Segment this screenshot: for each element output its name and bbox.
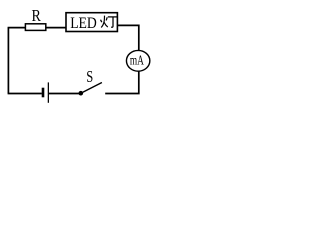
label CJK lamp glyph: fire radical right leg bbox=[104, 22, 108, 27]
LED lamp box bbox=[66, 13, 117, 32]
wire resistor to LED box bbox=[46, 27, 66, 29]
resistor R bbox=[25, 24, 45, 31]
svg-text:S: S bbox=[86, 67, 93, 86]
battery negative plate (short thick) bbox=[42, 88, 45, 98]
switch pivot dot bbox=[79, 91, 84, 96]
wire battery to bottom-left bbox=[8, 93, 42, 95]
label CJK lamp glyph: fire radical main stroke bbox=[101, 16, 104, 28]
svg-text:mA: mA bbox=[130, 53, 144, 68]
svg-text:LED: LED bbox=[70, 15, 97, 32]
label CJK lamp glyph: fire radical right dot bbox=[106, 17, 107, 20]
label CJK lamp glyph: ding vertical hook bbox=[111, 17, 113, 27]
label CJK lamp glyph: fire radical left dot bbox=[101, 20, 102, 23]
wire ammeter down and bottom-right to switch contact bbox=[105, 71, 139, 93]
svg-text:R: R bbox=[32, 6, 41, 25]
ammeter mA bbox=[126, 50, 149, 71]
wire left vertical bbox=[7, 28, 9, 94]
label CJK lamp glyph: ding top bar bbox=[108, 16, 117, 18]
wire top-left horizontal bbox=[8, 27, 26, 29]
battery positive plate (long thin) bbox=[47, 82, 49, 102]
wire switch dot to battery bbox=[49, 93, 81, 95]
wire LED box to ammeter drop bbox=[117, 25, 138, 50]
switch S blade bbox=[81, 83, 102, 94]
